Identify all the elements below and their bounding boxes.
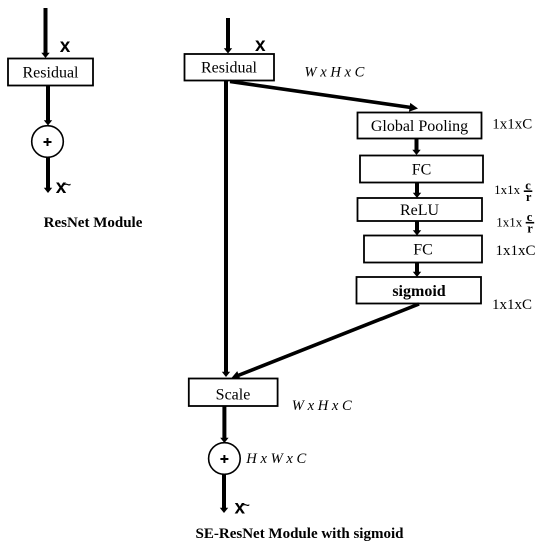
svg-text:H x W x C: H x W x C xyxy=(245,451,306,467)
arrow input-right xyxy=(224,18,232,54)
svg-text:1x1x: 1x1x xyxy=(494,182,520,197)
svg-text:Residual: Residual xyxy=(23,65,80,82)
svg-text:1x1xC: 1x1xC xyxy=(492,297,532,313)
adder node right xyxy=(209,443,241,475)
box Global Pooling xyxy=(358,113,482,139)
arrow output-right xyxy=(220,475,228,514)
svg-text:ReLU: ReLU xyxy=(400,202,440,219)
svg-text:~: ~ xyxy=(243,498,250,512)
wire Residual-left to adder xyxy=(44,86,52,126)
label x-tilde output-left xyxy=(56,177,71,198)
svg-text:W x H x C: W x H x C xyxy=(304,65,364,81)
box FC lower xyxy=(364,236,482,263)
arrow ReLU to FC lower xyxy=(413,221,421,236)
adder node left xyxy=(32,126,64,158)
svg-text:ResNet Module: ResNet Module xyxy=(44,215,143,231)
svg-text:Global Pooling: Global Pooling xyxy=(371,118,468,135)
arrow output-left xyxy=(44,158,52,194)
svg-text:1x1x: 1x1x xyxy=(496,214,523,229)
label x-tilde output-right xyxy=(235,498,250,519)
box Scale xyxy=(189,379,278,407)
arrow Global Pooling to FC xyxy=(412,139,420,156)
box FC upper xyxy=(360,156,483,183)
svg-text:x: x xyxy=(60,36,71,57)
svg-text:W x H x C: W x H x C xyxy=(292,398,352,414)
svg-text:1x1xC: 1x1xC xyxy=(492,117,532,133)
wire Residual-right to Global Pooling xyxy=(230,82,419,113)
svg-text:FC: FC xyxy=(412,162,432,179)
svg-text:FC: FC xyxy=(413,242,433,259)
svg-text:Scale: Scale xyxy=(216,387,251,404)
wire Residual-right to Scale xyxy=(222,81,230,378)
box Residual left xyxy=(8,59,93,86)
label 1x1xC/r (FC upper) xyxy=(494,178,532,204)
label 1x1xC/r (ReLU) xyxy=(496,210,534,236)
svg-text:r: r xyxy=(527,222,533,236)
arrow input-left xyxy=(41,8,49,58)
arrow FC lower to sigmoid xyxy=(413,263,421,278)
svg-text:r: r xyxy=(526,190,532,204)
box sigmoid xyxy=(357,277,482,304)
svg-text:x: x xyxy=(255,35,266,56)
arrow FC to ReLU xyxy=(413,183,421,199)
box Residual right xyxy=(185,54,275,81)
svg-text:~: ~ xyxy=(64,178,71,192)
svg-text:SE-ResNet Module with sigmoid: SE-ResNet Module with sigmoid xyxy=(196,526,405,542)
wire sigmoid to Scale xyxy=(229,304,419,383)
svg-text:Residual: Residual xyxy=(201,60,258,77)
svg-text:1x1xC: 1x1xC xyxy=(496,243,536,259)
svg-text:sigmoid: sigmoid xyxy=(392,283,445,300)
box ReLU xyxy=(358,198,483,221)
wire Scale to adder xyxy=(220,406,228,443)
